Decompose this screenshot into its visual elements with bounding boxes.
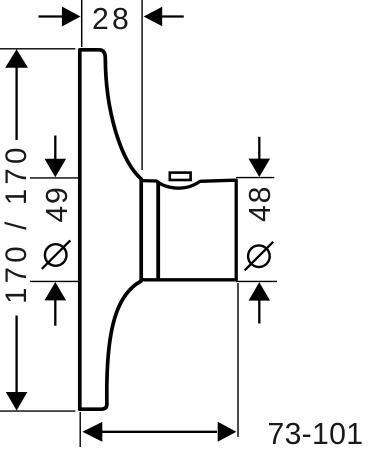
dimension d49: upper arrowhead (down) — [45, 159, 67, 177]
dimension 28: right leader line — [162, 15, 184, 17]
dimension 28: right arrowhead — [144, 7, 163, 26]
dimension d48: lower tail line — [258, 300, 260, 324]
handle seam line — [156, 182, 160, 278]
dimension 170/170: dimension line upper segment — [15, 67, 17, 140]
svg-text:170 / 170: 170 / 170 — [0, 144, 33, 304]
dimension 73-101: left extension line — [79, 412, 81, 447]
dimension d49: lower tail line — [54, 300, 56, 326]
dimension 28: extension line right (wall plane) — [141, 0, 143, 170]
dimension 170/170: dimension line lower segment — [15, 316, 17, 393]
dimension d48: diameter symbol circle — [248, 245, 270, 267]
svg-text:28: 28 — [92, 3, 132, 36]
dimension 73-101: right extension line — [237, 283, 239, 437]
dimension d48: lower arrowhead (up) — [249, 282, 271, 300]
dimension 73-101: left arrowhead — [82, 422, 102, 442]
dimension d48: upper arrowhead (down) — [249, 159, 271, 177]
dimension 73-101: dimension line — [100, 431, 217, 433]
dimension 170/170: top arrowhead — [5, 49, 28, 68]
dimension d49: upper tail line — [54, 136, 56, 163]
dimension d49: lower arrowhead (up) — [45, 282, 67, 300]
dimension 28: left arrowhead — [62, 7, 81, 27]
dimension 170/170: bottom arrowhead — [6, 392, 28, 411]
dimension d49: top extension line — [30, 177, 79, 179]
safety button on handle — [170, 173, 191, 180]
dimension d49: diameter symbol circle — [45, 244, 67, 266]
handle body outline with finger-groove dip — [141, 180, 236, 280]
dimension d49: bottom extension line — [30, 280, 79, 282]
dimension 170/170: top extension line — [0, 48, 75, 50]
escutcheon plate silhouette (front face, top edge, bell curves, wall-side edge) — [80, 50, 141, 409]
dimension 170/170: bottom extension line — [0, 410, 75, 412]
svg-text:73-101: 73-101 — [268, 418, 364, 450]
dimension d48: diameter symbol slash — [245, 242, 274, 270]
dimension d48: upper tail line — [258, 137, 260, 162]
svg-text:49: 49 — [41, 185, 74, 222]
dimension d49: diameter symbol slash — [42, 240, 71, 269]
dimension 28: left leader line — [39, 15, 63, 17]
dimension d48: top extension line — [236, 177, 274, 179]
dimension 73-101: right arrowhead — [218, 422, 237, 442]
svg-text:48: 48 — [244, 185, 277, 222]
dimension 28: extension line left (plate front face) — [81, 0, 83, 47]
dimension d48: bottom extension line — [236, 280, 277, 282]
